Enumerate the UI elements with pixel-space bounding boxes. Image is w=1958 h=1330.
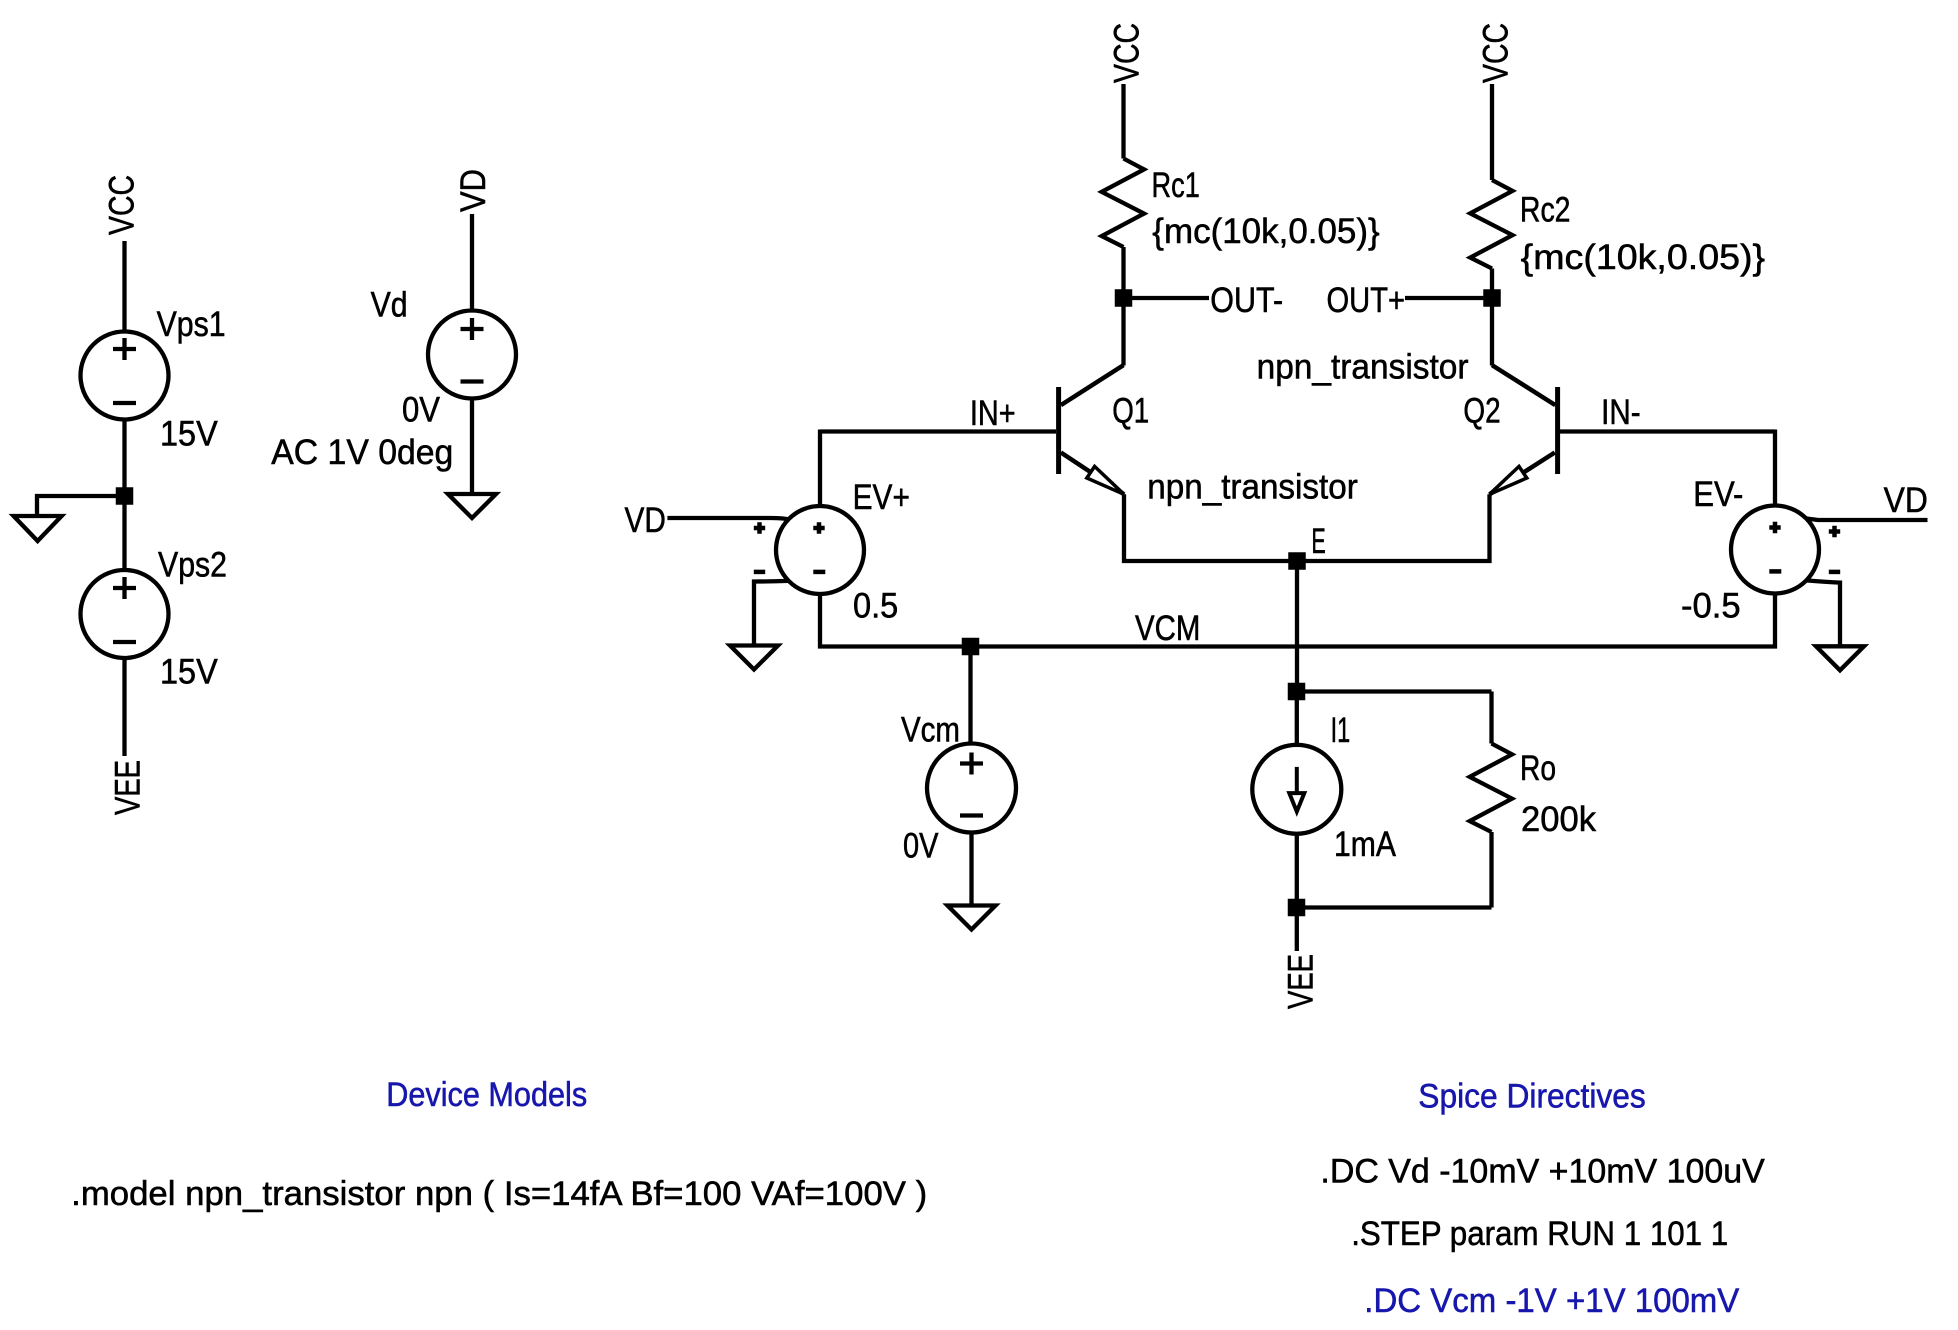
- wire junction to ground: [37, 496, 125, 516]
- source EV+: [776, 506, 864, 594]
- svg-text:IN+: IN+: [970, 394, 1016, 433]
- svg-text:npn_transistor: npn_transistor: [1147, 468, 1358, 507]
- svg-text:Rc1: Rc1: [1152, 166, 1200, 205]
- svg-text:Spice Directives: Spice Directives: [1418, 1078, 1646, 1116]
- svg-text:0V: 0V: [903, 827, 939, 866]
- minus control EV-: [1829, 570, 1840, 575]
- minus Vcm: [960, 813, 983, 817]
- minus Vps2: [113, 640, 136, 644]
- wire I1 top to Ro top: [1297, 689, 1492, 693]
- transistor Q2 collector: [1492, 365, 1555, 405]
- wire OUT- stub: [1124, 296, 1210, 300]
- ground (Vd): [448, 494, 496, 518]
- svg-text:OUT-: OUT-: [1210, 281, 1283, 320]
- svg-text:VD: VD: [454, 169, 493, 212]
- svg-text:.DC Vcm -1V +1V 100mV: .DC Vcm -1V +1V 100mV: [1364, 1282, 1739, 1320]
- svg-text:15V: 15V: [160, 653, 218, 692]
- svg-text:I1: I1: [1331, 711, 1351, 750]
- minus Vd: [461, 379, 484, 383]
- svg-text:15V: 15V: [160, 414, 218, 453]
- wire Rc1 to Q1 collector: [1121, 247, 1125, 366]
- svg-text:VEE: VEE: [109, 760, 148, 815]
- wire VCM junction to Vcm: [968, 647, 972, 744]
- wire OUT+ stub: [1405, 296, 1492, 300]
- ground (EV-): [1816, 646, 1864, 670]
- plus Vps1: [113, 338, 136, 360]
- voltage source Vcm: [927, 744, 1016, 833]
- wire E down to I1: [1295, 561, 1299, 692]
- svg-text:VD: VD: [1884, 481, 1928, 520]
- svg-text:.model npn_transistor npn ( Is: .model npn_transistor npn ( Is=14fA Bf=1…: [71, 1175, 927, 1213]
- svg-text:AC 1V 0deg: AC 1V 0deg: [271, 433, 453, 472]
- plus Vps2: [113, 577, 136, 599]
- wire Vcm to ground: [969, 833, 973, 906]
- svg-text:Vcm: Vcm: [901, 711, 960, 750]
- transistor Q2 emitter: [1490, 453, 1555, 495]
- svg-text:Q1: Q1: [1112, 392, 1149, 431]
- net label VCC (left supply): [0, 0, 2, 2]
- ground (EV+): [730, 646, 778, 670]
- wire Rc2 to Q2 collector: [1490, 269, 1494, 366]
- transistor Q1 emitter: [1061, 453, 1124, 495]
- wire EV- to VCM: [1773, 594, 1777, 649]
- node VCM junction: [962, 638, 980, 656]
- svg-text:{mc(10k,0.05)}: {mc(10k,0.05)}: [1152, 212, 1380, 251]
- svg-text:Q2: Q2: [1463, 392, 1500, 431]
- voltage source Vd: [428, 311, 516, 399]
- node OUT- junction: [1115, 289, 1133, 307]
- source EV-: [1731, 506, 1819, 594]
- plus control EV+: [754, 522, 765, 533]
- voltage source Vps2: [81, 570, 169, 658]
- wire Ro bottom to I1 bottom: [1297, 905, 1492, 909]
- transistor Q1 base bar: [1056, 387, 1061, 474]
- wire EV+ control minus to ground: [754, 581, 789, 646]
- transistor Q1 collector: [1061, 365, 1124, 405]
- svg-text:.STEP param RUN 1 101 1: .STEP param RUN 1 101 1: [1351, 1215, 1728, 1253]
- svg-text:0.5: 0.5: [853, 587, 898, 626]
- wire Q2 emitter down: [1487, 494, 1491, 563]
- wire Ro top vertical: [1489, 692, 1493, 744]
- voltage source Vps1: [81, 332, 169, 420]
- plus control EV-: [1829, 526, 1840, 537]
- plus inside EV+: [813, 522, 824, 533]
- svg-text:200k: 200k: [1521, 800, 1596, 839]
- svg-text:Device Models: Device Models: [386, 1076, 587, 1114]
- arrow inside I1: [1295, 767, 1299, 795]
- svg-text:Vd: Vd: [371, 285, 408, 324]
- svg-text:VCC: VCC: [103, 175, 142, 235]
- plus Vd: [461, 318, 484, 340]
- svg-text:VEE: VEE: [1282, 954, 1321, 1009]
- ground (left supply): [14, 516, 62, 541]
- node E junction: [1288, 552, 1306, 570]
- wire E horizontal: [1122, 559, 1492, 563]
- node junction between Vps1 and Vps2: [116, 487, 134, 505]
- svg-text:.DC Vd -10mV +10mV 100uV: .DC Vd -10mV +10mV 100uV: [1320, 1152, 1765, 1190]
- svg-text:{mc(10k,0.05)}: {mc(10k,0.05)}: [1521, 238, 1766, 277]
- resistor Ro: [1470, 744, 1512, 833]
- svg-text:Ro: Ro: [1520, 749, 1556, 788]
- wire IN+ down to EV+: [818, 430, 822, 507]
- wire IN- down to EV-: [1773, 430, 1777, 506]
- wire I1 top column: [1295, 699, 1299, 745]
- wire Vps2 to VEE: [122, 658, 126, 756]
- wire VCC to Rc1: [1121, 84, 1125, 159]
- plus Vcm: [960, 753, 983, 775]
- wire Ro bottom vertical: [1489, 832, 1493, 908]
- svg-text:1mA: 1mA: [1334, 825, 1397, 864]
- wire VCC to Vps1: [122, 241, 126, 332]
- wire I1 bottom column: [1295, 834, 1299, 900]
- plus inside EV-: [1769, 522, 1780, 533]
- minus Vps1: [113, 401, 136, 405]
- transistor Q2 emitter arrow: [1490, 466, 1527, 494]
- svg-text:IN-: IN-: [1601, 393, 1641, 432]
- svg-text:OUT+: OUT+: [1327, 281, 1406, 320]
- transistor Q1 emitter arrow: [1087, 466, 1124, 494]
- svg-text:VCC: VCC: [1477, 23, 1516, 83]
- svg-text:EV-: EV-: [1693, 475, 1743, 514]
- svg-text:0V: 0V: [402, 391, 441, 430]
- svg-text:Rc2: Rc2: [1520, 190, 1571, 229]
- wire IN+ base: [820, 429, 1056, 433]
- svg-text:Vps1: Vps1: [157, 305, 226, 344]
- svg-text:VCM: VCM: [1135, 609, 1200, 648]
- resistor Rc1: [1102, 159, 1144, 248]
- node OUT+ junction: [1483, 289, 1501, 307]
- wire VCM horizontal: [818, 644, 1777, 648]
- svg-text:E: E: [1311, 522, 1325, 561]
- svg-text:EV+: EV+: [853, 478, 910, 517]
- ground (Vcm): [948, 906, 996, 930]
- wire EV- control minus to ground: [1806, 580, 1840, 646]
- node I1 top junction: [1288, 683, 1306, 701]
- wire Vps1 to Vps2: [122, 420, 126, 571]
- wire VCC to Rc2: [1490, 84, 1494, 180]
- minus inside EV-: [1769, 569, 1781, 574]
- svg-text:npn_transistor: npn_transistor: [1257, 347, 1469, 386]
- minus inside EV+: [813, 570, 825, 575]
- svg-text:VCC: VCC: [1108, 23, 1147, 83]
- transistor Q2 base bar: [1555, 387, 1560, 474]
- minus control EV+: [754, 570, 765, 575]
- svg-text:Vps2: Vps2: [158, 546, 227, 585]
- svg-text:-0.5: -0.5: [1681, 587, 1741, 626]
- wire IN- base: [1560, 429, 1775, 433]
- wire Q1 emitter down: [1122, 494, 1126, 563]
- resistor Rc2: [1470, 180, 1512, 269]
- wire VD to EV+ control: [667, 518, 789, 520]
- wire I1 to VEE: [1295, 916, 1299, 952]
- wire Vd to ground: [470, 399, 474, 495]
- current source I1: [1252, 745, 1341, 834]
- wire EV+ to VCM: [818, 594, 822, 649]
- wire VD to EV- control: [1806, 518, 1927, 520]
- node I1 bottom junction: [1288, 899, 1306, 917]
- svg-text:VD: VD: [625, 501, 666, 540]
- wire VD to Vd: [470, 214, 474, 311]
